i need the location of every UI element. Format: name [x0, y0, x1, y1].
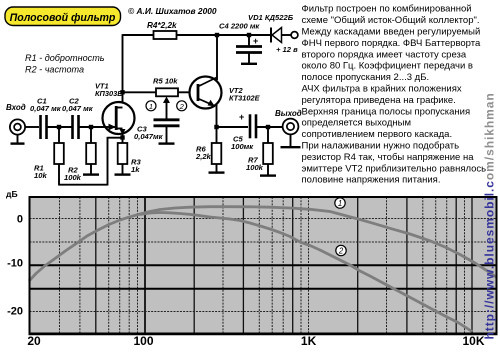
- node B: [89, 125, 93, 129]
- svg-text:1k: 1k: [131, 165, 140, 174]
- svg-text:+ 12 в: + 12 в: [276, 45, 298, 54]
- marker 1 on curve: [335, 198, 345, 208]
- transistor VT2: [190, 77, 222, 109]
- wire VT2 collector vertical: [216, 35, 218, 80]
- svg-text:10k: 10k: [34, 171, 47, 180]
- resistor R7: [267, 127, 269, 143]
- svg-text:2: 2: [179, 102, 185, 111]
- wire R5 right: [178, 91, 190, 93]
- svg-text:половине напряжения питания.: половине напряжения питания.: [302, 175, 441, 186]
- ground R3: [122, 164, 124, 174]
- wire R5 left: [123, 91, 157, 93]
- ground C3: [159, 142, 175, 144]
- svg-text:2: 2: [338, 247, 344, 256]
- wire feedback: [58, 164, 60, 186]
- svg-text:http://www.bluesmobil.com/shik: http://www.bluesmobil.com/shikhman: [483, 92, 497, 339]
- svg-text:VD1 КД522Б: VD1 КД522Б: [248, 13, 294, 22]
- svg-text:100k: 100k: [64, 173, 82, 182]
- capacitor C3: [154, 118, 180, 121]
- svg-text:регулятора приведена на график: регулятора приведена на графике.: [302, 95, 456, 106]
- svg-text:-10: -10: [7, 258, 23, 270]
- svg-text:R5 10k: R5 10k: [153, 77, 178, 86]
- svg-text:1K: 1K: [301, 334, 317, 348]
- svg-text:Вход: Вход: [6, 103, 26, 112]
- svg-text:Полосовой фильтр: Полосовой фильтр: [10, 12, 116, 24]
- svg-text:Фильтр построен по комбинирова: Фильтр построен по комбинированной: [302, 4, 472, 15]
- svg-text:Выход: Выход: [275, 109, 302, 118]
- node output: [266, 125, 270, 129]
- diode VD1: [281, 34, 291, 36]
- svg-text:R2 - частота: R2 - частота: [25, 65, 84, 75]
- ground output: [290, 134, 292, 146]
- capacitor C1: [39, 115, 42, 139]
- wire VT1 source down: [122, 130, 124, 143]
- svg-text:0,047 мк: 0,047 мк: [62, 104, 94, 113]
- wire C1-C2: [47, 126, 72, 128]
- svg-text:схеме "Общий исток-Общий колле: схеме "Общий исток-Общий коллектор".: [302, 15, 480, 26]
- svg-text:R1 - добротность: R1 - добротность: [25, 53, 105, 63]
- ground C4: [241, 63, 257, 65]
- node junction top collector: [215, 33, 219, 37]
- node VT1 drain-R5: [120, 90, 124, 94]
- ground R2: [90, 164, 92, 174]
- node 1 marker: [146, 101, 156, 111]
- wire VT2 emitter down: [216, 105, 218, 127]
- graph plot area: [29, 197, 498, 334]
- svg-text:определяется выходным: определяется выходным: [302, 118, 411, 129]
- node A: [57, 125, 61, 129]
- wire input: [25, 126, 39, 128]
- capacitor C2: [71, 115, 74, 139]
- svg-text:КТ3102Е: КТ3102Е: [229, 94, 261, 103]
- svg-text:100: 100: [133, 334, 153, 348]
- svg-text:Верхняя граница полосы пропуск: Верхняя граница полосы пропускания: [302, 106, 471, 117]
- description text: [302, 4, 487, 186]
- resistor R3: [118, 143, 128, 164]
- svg-text:2,2k: 2,2k: [195, 152, 212, 161]
- ground R7: [267, 164, 269, 175]
- svg-text:1: 1: [149, 102, 153, 111]
- wire VT1 drain vertical: [122, 34, 124, 103]
- svg-text:10K: 10K: [462, 334, 484, 348]
- svg-text:КП303Е: КП303Е: [95, 89, 123, 98]
- wire top rail: [123, 34, 272, 36]
- resistor R2: [90, 127, 92, 143]
- capacitor C4: [248, 35, 250, 48]
- terminal +12V: [291, 32, 298, 39]
- connector input: [10, 119, 25, 134]
- svg-text:Между каскадами введен регулир: Между каскадами введен регулируемый: [302, 27, 481, 38]
- resistor R6: [216, 127, 218, 143]
- svg-text:При налаживании нужно подобрат: При налаживании нужно подобрать: [302, 141, 460, 152]
- node junction top C4: [247, 33, 251, 37]
- svg-text:дБ: дБ: [6, 189, 18, 199]
- svg-text:0,047 мк: 0,047 мк: [30, 104, 62, 113]
- svg-text:+: +: [239, 112, 244, 122]
- svg-text:0,047мк: 0,047мк: [134, 132, 164, 141]
- svg-text:около 80 Гц. Коэффициент перед: около 80 Гц. Коэффициент передачи в: [302, 61, 473, 72]
- svg-text:+: +: [253, 36, 258, 46]
- wire C5-output: [256, 126, 283, 128]
- svg-text:эмиттере VT2 приблизительно ра: эмиттере VT2 приблизительно равнялось: [302, 163, 487, 174]
- node VT2 emitter: [214, 125, 218, 129]
- node VT1 source: [120, 135, 124, 139]
- wire emitter-C5: [217, 126, 249, 128]
- connector output: [283, 119, 299, 135]
- svg-text:1: 1: [338, 199, 342, 208]
- curve 1 response: [29, 207, 497, 281]
- resistor R4: [154, 31, 177, 39]
- marker 2 on curve: [336, 245, 346, 255]
- svg-text:ФНЧ первого порядка. ФВЧ Батте: ФНЧ первого порядка. ФВЧ Баттерворта: [302, 38, 482, 49]
- ground input: [17, 135, 19, 143]
- svg-text:-20: -20: [7, 306, 23, 318]
- grid horizontal lines: [30, 218, 497, 220]
- node 2 marker: [177, 101, 187, 111]
- svg-text:второго порядка имеет частоту: второго порядка имеет частоту среза: [302, 49, 467, 60]
- curve 2 response: [140, 213, 472, 332]
- svg-text:20: 20: [27, 334, 41, 348]
- svg-text:резистор R4 так, чтобы напряже: резистор R4 так, чтобы напряжение на: [302, 152, 475, 163]
- capacitor C5: [249, 114, 252, 138]
- svg-text:сопротивлением первого каскада: сопротивлением первого каскада.: [302, 129, 453, 140]
- pot wiper arrow: [166, 100, 168, 119]
- svg-text:C4 2200 мк: C4 2200 мк: [219, 22, 260, 31]
- resistor R1: [58, 127, 60, 143]
- svg-text:АЧХ фильтра в крайних положени: АЧХ фильтра в крайних положениях: [302, 84, 462, 95]
- graph border: [30, 197, 497, 334]
- svg-text:0: 0: [17, 214, 23, 226]
- resistor R5 potentiometer: [156, 88, 178, 96]
- wire C2-gate: [79, 126, 104, 128]
- svg-text:© А.И. Шихатов 2000: © А.И. Шихатов 2000: [128, 6, 217, 16]
- svg-text:100мк: 100мк: [231, 142, 254, 151]
- transistor VT1: [103, 102, 135, 134]
- svg-text:R4*2,2k: R4*2,2k: [147, 21, 177, 30]
- svg-text:полосе пропускания 2...3 дБ.: полосе пропускания 2...3 дБ.: [302, 72, 430, 83]
- ground R6: [216, 164, 218, 172]
- svg-text:100k: 100k: [246, 163, 264, 172]
- title box: [5, 7, 121, 26]
- grid vertical lines: [59, 197, 61, 334]
